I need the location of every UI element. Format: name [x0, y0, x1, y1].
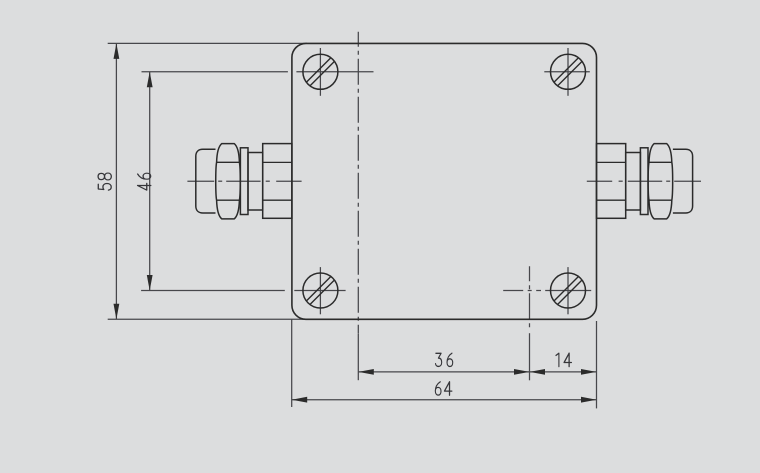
label 36 [436, 353, 442, 366]
label 58 (vertical) [98, 173, 111, 190]
crosshair screw top-right [544, 71, 590, 73]
vertical centerline through box (36 datum) [357, 32, 359, 333]
gland flange (body hex) [597, 144, 626, 219]
vertical centerline at 14 datum [529, 266, 531, 329]
crosshair screw bottom-right [545, 290, 591, 292]
crosshair screw bottom-left [294, 290, 345, 292]
dimension line 64 [292, 399, 597, 401]
dimension line 14 [530, 371, 597, 373]
dimension line 36 [358, 371, 529, 373]
gland dome cap [673, 149, 693, 213]
cable gland left [196, 144, 292, 219]
gland neck [248, 153, 263, 211]
crosshair screw top-left [296, 71, 373, 73]
screw top-left [303, 54, 338, 89]
label 64 [435, 382, 441, 395]
gland washer section [240, 148, 248, 215]
extension line for dim 46 top / crosshair feed [142, 71, 288, 73]
screw top-right [551, 54, 586, 89]
dimension line 46 [149, 72, 151, 291]
gland neck [626, 153, 641, 211]
gland axis centerline right [587, 180, 701, 182]
dimension line 58 [115, 43, 117, 319]
extension line for dim 46 bottom [141, 290, 285, 292]
gland hex nut [648, 144, 673, 219]
gland washer section [640, 148, 648, 215]
centerline cross dash at bottom-right hole [503, 290, 541, 292]
extension line bottom for dim 58 [108, 318, 307, 320]
screw bottom-left [303, 273, 338, 308]
extension line top for dim 58 [108, 42, 307, 44]
extension line left for dim 64 [291, 319, 293, 407]
extension line right for dim 64 and 14 [596, 321, 598, 408]
label 14 [556, 353, 559, 366]
gland hex nut [216, 144, 241, 219]
gland axis centerline left [187, 180, 301, 182]
gland dome cap [196, 149, 216, 213]
cable gland right (mirrored) [597, 144, 693, 219]
enclosure body (64 x 58 box) [292, 43, 597, 319]
gland flange (body hex) [263, 144, 292, 219]
screw bottom-right [551, 273, 586, 308]
label 46 (vertical) [138, 173, 151, 190]
